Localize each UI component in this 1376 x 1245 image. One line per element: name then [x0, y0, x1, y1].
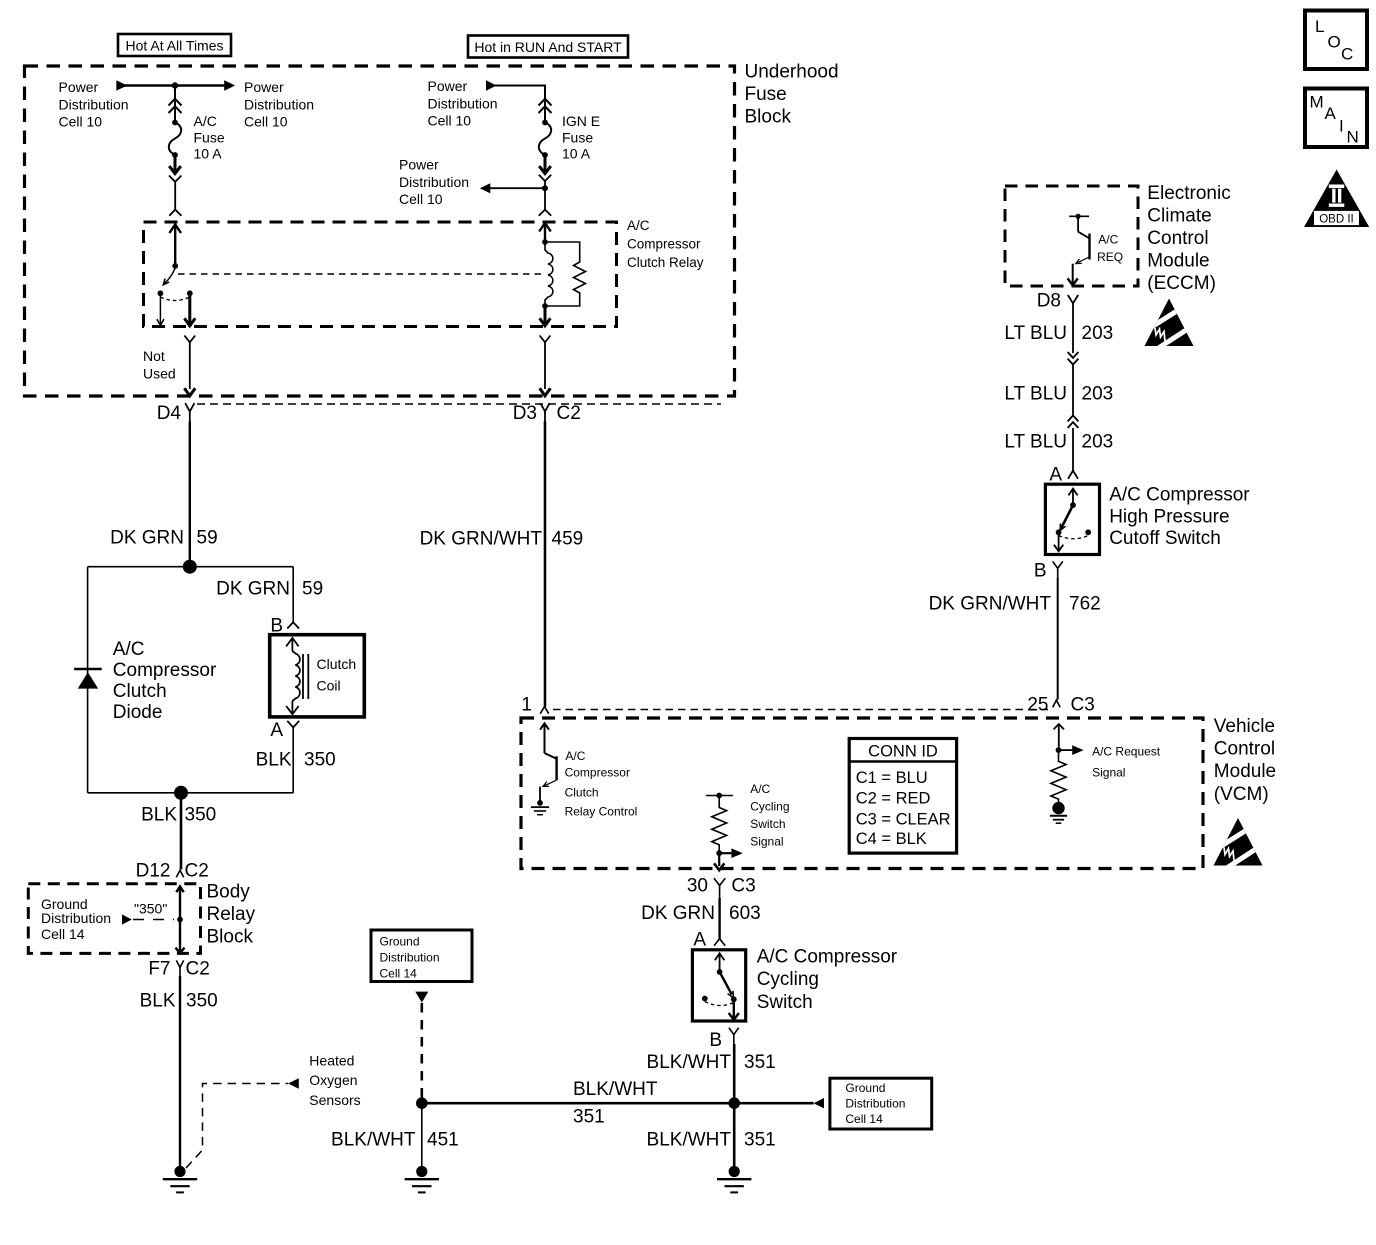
svg-text:Compressor: Compressor — [113, 660, 217, 681]
label: Heated Oxygen Sensors — [309, 1052, 360, 1108]
svg-text:M: M — [1310, 93, 1324, 112]
ground G404 (left) — [163, 1166, 197, 1193]
label: Power Distribution Cell 10 (above IGN fuse) — [428, 78, 498, 129]
svg-text:203: 203 — [1082, 432, 1114, 453]
svg-text:C2: C2 — [557, 403, 581, 424]
wire: cycling switch B to ground — [733, 1044, 736, 1167]
svg-text:B: B — [709, 1030, 722, 1051]
svg-text:LT BLU: LT BLU — [1004, 323, 1067, 344]
svg-text:Cycling: Cycling — [757, 969, 819, 990]
cycling switch symbol — [715, 953, 724, 972]
vehicle control module (dashed box) — [521, 718, 1203, 869]
ground inside VCM driver — [531, 800, 549, 815]
wire + male connector arrow below left fuse — [169, 155, 181, 174]
label: Body Relay Block — [207, 882, 256, 948]
relay coil — [545, 242, 553, 306]
svg-text:Heated: Heated — [309, 1052, 354, 1068]
svg-text:Sensors: Sensors — [309, 1092, 360, 1108]
wire: diode loop — [88, 567, 294, 793]
svg-text:DK GRN/WHT: DK GRN/WHT — [929, 594, 1052, 615]
svg-text:D12: D12 — [136, 861, 171, 882]
svg-text:Control: Control — [1147, 228, 1208, 249]
svg-text:B: B — [1034, 561, 1047, 582]
wire label: LT BLU 203 — [1004, 432, 1113, 453]
CONN ID table — [849, 739, 956, 854]
connector D8 — [1037, 291, 1061, 312]
junction node (bottom of diode loop) — [174, 786, 188, 800]
ground inside VCM (request signal) — [1050, 802, 1067, 823]
svg-text:1: 1 — [521, 695, 532, 716]
wire: left fuse feed down — [174, 86, 176, 123]
ref arrow to ground distribution (right) — [814, 1098, 824, 1108]
in-line connector chevrons (left feed) — [169, 99, 182, 113]
svg-text:Cutoff Switch: Cutoff Switch — [1109, 528, 1221, 549]
junction node on ground rail (left) — [416, 1097, 428, 1109]
svg-text:High Pressure: High Pressure — [1109, 506, 1229, 527]
svg-text:A/C: A/C — [565, 749, 585, 763]
label box: Hot in RUN And START — [468, 36, 628, 58]
svg-text:451: 451 — [427, 1130, 459, 1151]
svg-text:Distribution: Distribution — [41, 910, 111, 926]
svg-text:Cell 10: Cell 10 — [59, 114, 103, 130]
wire label: BLK/WHT 451 — [331, 1130, 459, 1151]
svg-text:D3: D3 — [513, 403, 537, 424]
relay coil output (thick arrow down) — [540, 306, 551, 326]
label: Vehicle Control Module (VCM) — [1214, 716, 1276, 805]
svg-text:603: 603 — [729, 903, 761, 924]
wire label: DK GRN 603 — [641, 903, 761, 924]
svg-text:Cell 14: Cell 14 — [41, 926, 85, 942]
relay switch arm (curved, arrow to left contact) — [163, 268, 175, 285]
in-line connector (double chevron down) — [1068, 352, 1079, 365]
svg-text:C2 = RED: C2 = RED — [856, 790, 931, 808]
wire label: DK GRN/WHT 459 — [420, 529, 584, 550]
svg-text:A/C Compressor: A/C Compressor — [757, 947, 898, 968]
svg-text:Signal: Signal — [750, 835, 783, 849]
svg-text:C3: C3 — [731, 876, 755, 897]
resistor (cycling switch signal) — [712, 796, 727, 851]
wire: to ground (BLK/WHT 451) — [421, 1103, 423, 1166]
svg-text:351: 351 — [744, 1052, 776, 1073]
label: Power Distribution Cell 10 (top left) — [59, 79, 129, 130]
svg-text:Oxygen: Oxygen — [309, 1072, 357, 1088]
relay output female chevron (D3 leg) — [540, 336, 551, 390]
label: Power Distribution Cell 10 (top mid) — [244, 79, 314, 130]
VCM A/C request signal branch — [1054, 724, 1064, 750]
svg-text:C1 = BLU: C1 = BLU — [856, 769, 928, 787]
svg-text:Compressor: Compressor — [565, 765, 630, 779]
A/C compressor clutch relay (dashed box) — [144, 222, 617, 327]
wire label: LT BLU 203 — [1004, 323, 1113, 344]
wire: D3 to VCM pin 1 (DK GRN/WHT 459) — [544, 422, 547, 707]
wire: ground rail BLK/WHT 351 — [422, 1102, 814, 1105]
wire label: DK GRN 59 (coil branch) — [216, 579, 323, 600]
junction on left rail — [172, 82, 178, 88]
wire: 30 to cycling switch A (DK GRN 603) — [718, 898, 720, 939]
svg-text:Body: Body — [207, 882, 251, 903]
relay switch pivot — [172, 263, 178, 269]
ref arrow: heated oxygen sensors — [288, 1078, 299, 1089]
svg-text:59: 59 — [197, 528, 218, 549]
svg-text:351: 351 — [573, 1107, 605, 1128]
ref arrow + "350" — [122, 901, 174, 925]
svg-text:Cell 14: Cell 14 — [845, 1112, 883, 1126]
label: Ground Distribution Cell 14 (inset) — [41, 896, 111, 942]
svg-text:Control: Control — [1214, 739, 1275, 760]
svg-text:Clutch: Clutch — [565, 785, 599, 799]
relay output female chevron (left, D4 leg) — [184, 336, 195, 390]
in-line connector chevrons (IGN feed) — [539, 99, 552, 113]
svg-text:Hot in RUN And START: Hot in RUN And START — [474, 39, 622, 55]
svg-text:A/C: A/C — [750, 782, 770, 796]
svg-text:Distribution: Distribution — [244, 96, 314, 112]
wire: left power rail — [120, 84, 231, 87]
svg-text:IGN E: IGN E — [562, 113, 600, 129]
label: IGN E Fuse 10 A — [562, 113, 600, 162]
ref arrow down from box — [415, 992, 428, 1003]
svg-text:D4: D4 — [157, 403, 182, 424]
ground G103 (middle) — [405, 1166, 439, 1193]
svg-text:Cell 10: Cell 10 — [399, 191, 443, 207]
pin A of cutoff switch — [1049, 465, 1062, 486]
wire label: DK GRN/WHT 762 — [929, 594, 1101, 615]
connector pin 30 / C3 — [687, 876, 756, 897]
svg-text:Electronic: Electronic — [1147, 183, 1230, 204]
svg-text:BLK/WHT: BLK/WHT — [647, 1130, 732, 1151]
svg-text:351: 351 — [744, 1130, 776, 1151]
label: A/C Compressor Clutch Diode — [113, 639, 217, 723]
svg-text:Ground: Ground — [845, 1081, 885, 1095]
svg-text:Hot At All Times: Hot At All Times — [125, 38, 223, 54]
resistor (A/C request signal) — [1051, 750, 1066, 802]
junction in body relay block — [177, 917, 183, 923]
label: A/C Compressor Clutch Relay Control — [565, 749, 638, 819]
off-page arrow (Power Distribution Cell 10, mid) — [480, 183, 491, 193]
A/C compressor high pressure cutoff switch box — [1045, 484, 1099, 554]
junction node on ground rail (right) — [728, 1097, 740, 1109]
off-page arrow (Power Distribution Cell 10, IGN feed) — [486, 80, 497, 90]
svg-text:Distribution: Distribution — [380, 951, 440, 965]
dashed branch to heated oxygen sensors — [186, 1084, 288, 1169]
svg-text:CONN ID: CONN ID — [868, 743, 938, 761]
svg-text:A/C Request: A/C Request — [1092, 745, 1161, 759]
svg-text:30: 30 — [687, 876, 708, 897]
A/C compressor clutch diode — [74, 669, 102, 689]
pin B of clutch coil — [270, 616, 283, 637]
svg-text:A/C: A/C — [627, 218, 650, 233]
svg-text:Switch: Switch — [757, 992, 813, 1013]
relay switch input pin (arrow up into relay) — [169, 224, 181, 266]
arrow at fuse block exit (D4 leg) — [184, 388, 195, 396]
wire: D4 to diode loop (DK GRN 59) — [189, 422, 191, 567]
svg-text:Signal: Signal — [1092, 766, 1125, 780]
svg-text:I: I — [1339, 117, 1344, 136]
label: Clutch Coil — [317, 656, 357, 694]
pin B of cycling switch — [709, 1030, 722, 1051]
svg-text:Power: Power — [428, 78, 468, 94]
connector pin 1 — [521, 695, 532, 716]
svg-text:Not: Not — [143, 348, 165, 364]
svg-text:59: 59 — [302, 579, 323, 600]
svg-text:A: A — [693, 930, 706, 951]
ESD symbol (ECCM) — [1140, 295, 1198, 350]
svg-text:Clutch: Clutch — [113, 681, 167, 702]
svg-text:Distribution: Distribution — [428, 95, 498, 111]
relay contact output (thick arrow down) — [184, 295, 195, 326]
svg-text:LT BLU: LT BLU — [1004, 432, 1067, 453]
wire label: DK GRN 59 — [110, 528, 218, 549]
dashed actuation line from switch to coil — [178, 273, 541, 275]
svg-text:350: 350 — [186, 991, 218, 1012]
wire: loop to D12 (BLK 350) — [180, 793, 183, 870]
dashed arc between relay contacts — [160, 297, 189, 301]
pin B of cutoff switch — [1034, 561, 1047, 582]
dashed wire from ground distribution — [420, 1003, 423, 1098]
svg-text:BLK: BLK — [140, 991, 176, 1012]
svg-text:A: A — [1325, 104, 1337, 123]
label: A/C Request Signal — [1092, 745, 1161, 780]
wire label: BLK 350 — [140, 991, 218, 1012]
svg-text:Cell 10: Cell 10 — [428, 113, 472, 129]
svg-text:Cell 10: Cell 10 — [244, 114, 288, 130]
svg-text:Underhood: Underhood — [745, 62, 839, 83]
wire: LT BLU 203 (lower segment) — [1072, 428, 1074, 471]
svg-text:BLK/WHT: BLK/WHT — [647, 1052, 732, 1073]
svg-text:A/C: A/C — [194, 113, 217, 129]
svg-text:Coil: Coil — [317, 678, 341, 694]
svg-text:Power: Power — [59, 79, 99, 95]
label: A/C Compressor High Pressure Cutoff Switch — [1109, 485, 1250, 549]
electronic climate control module (dashed box) — [1005, 186, 1138, 286]
svg-text:DK GRN/WHT: DK GRN/WHT — [420, 529, 543, 550]
svg-text:Cell 14: Cell 14 — [380, 967, 418, 981]
off-page arrow left (Power Distribution Cell 10) — [116, 80, 127, 90]
svg-text:Module: Module — [1147, 251, 1209, 272]
svg-text:A/C Compressor: A/C Compressor — [1109, 485, 1250, 506]
svg-text:203: 203 — [1082, 384, 1114, 405]
ref box: Ground Distribution Cell 14 (right) — [830, 1078, 932, 1129]
svg-text:A/C: A/C — [113, 639, 145, 660]
A/C compressor cycling switch box — [692, 950, 745, 1021]
in-line connector (double chevron up) — [1068, 416, 1079, 429]
svg-text:Clutch Relay: Clutch Relay — [627, 255, 704, 270]
svg-text:DK GRN: DK GRN — [216, 579, 290, 600]
label: A/C Compressor Cycling Switch — [757, 947, 898, 1013]
svg-text:O: O — [1328, 33, 1341, 52]
svg-text:Power: Power — [399, 157, 439, 173]
ECCM A/C REQ driver output — [1069, 215, 1089, 217]
svg-text:L: L — [1315, 17, 1324, 36]
wire label: BLK/WHT 351 (rail) — [573, 1079, 658, 1128]
svg-text:Relay Control: Relay Control — [565, 805, 638, 819]
svg-text:(VCM): (VCM) — [1214, 784, 1269, 805]
svg-text:Cycling: Cycling — [750, 800, 789, 814]
fuse A/C Fuse 10 A — [169, 120, 181, 158]
svg-text:A: A — [270, 720, 283, 741]
wire: IGN E feed rail — [495, 86, 545, 123]
fuse IGN E Fuse 10 A — [539, 120, 551, 158]
VCM A/C compressor clutch relay control driver — [540, 723, 557, 780]
relay coil top node — [542, 239, 548, 245]
connector D4 — [157, 403, 182, 424]
label: Electronic Climate Control Module (ECCM) — [1147, 183, 1230, 294]
pin A of cycling switch — [693, 930, 706, 951]
female connector chevron (IGN) — [539, 175, 551, 181]
svg-text:762: 762 — [1069, 594, 1101, 615]
svg-text:BLK: BLK — [141, 805, 177, 826]
relay switch contacts — [158, 290, 164, 296]
svg-text:Distribution: Distribution — [59, 96, 129, 112]
relay contact Not Used (thin arrow down) — [157, 296, 164, 326]
connector C3 line (thin dashed) — [553, 709, 1050, 711]
svg-text:Block: Block — [745, 107, 792, 128]
svg-text:25: 25 — [1027, 695, 1048, 716]
svg-text:C4 = BLK: C4 = BLK — [856, 830, 927, 848]
ground G104 (right) — [717, 1166, 751, 1193]
wire label: BLK 350 (below coil) — [256, 750, 336, 771]
wire: F7 to ground (BLK 350) — [179, 976, 181, 1167]
svg-text:Diode: Diode — [113, 702, 163, 723]
svg-text:C2: C2 — [186, 959, 210, 980]
arrow at fuse block exit (D3 leg) — [540, 388, 551, 396]
label: A/C Cycling Switch Signal — [750, 782, 789, 849]
svg-text:C: C — [1341, 45, 1353, 64]
connector D3 / C2 — [513, 403, 581, 424]
wire label: BLK 350 — [141, 805, 216, 826]
junction dot on IGN wire — [542, 185, 548, 191]
svg-text:A/C: A/C — [1098, 232, 1118, 246]
wire: D8 to in-line connector (LT BLU 203) — [1072, 312, 1074, 353]
clutch coil symbol — [286, 638, 308, 714]
wire: LT BLU 203 (middle segment) — [1072, 365, 1074, 416]
LOC icon — [1305, 11, 1367, 70]
svg-text:BLK/WHT: BLK/WHT — [331, 1130, 416, 1151]
ref box: Ground Distribution Cell 14 (middle) — [371, 930, 472, 982]
svg-text:Distribution: Distribution — [399, 174, 469, 190]
chevron into relay box (IGN wire) — [539, 210, 551, 216]
svg-text:D8: D8 — [1037, 291, 1061, 312]
connector pin 25 / C3 — [1027, 695, 1094, 716]
label box: Hot At All Times — [118, 34, 231, 56]
female connector chevron (left) — [169, 176, 181, 216]
svg-text:DK GRN: DK GRN — [110, 528, 184, 549]
VCM cycling switch signal pull-up — [706, 795, 733, 797]
label: Power Distribution Cell 10 (mid) — [399, 157, 469, 208]
svg-text:459: 459 — [552, 529, 584, 550]
label: A/C Fuse 10 A — [194, 113, 225, 162]
svg-text:Switch: Switch — [750, 817, 785, 831]
relay coil input pin (arrow up) — [539, 223, 551, 242]
ESD symbol (VCM) — [1209, 814, 1267, 869]
junction node (top of diode loop) — [183, 560, 197, 574]
node + signal arrow — [716, 850, 722, 856]
svg-text:"350": "350" — [134, 901, 167, 917]
svg-text:BLK/WHT: BLK/WHT — [573, 1079, 658, 1100]
svg-text:Vehicle: Vehicle — [1214, 716, 1275, 737]
connector F7 / C2 — [148, 959, 209, 980]
off-page arrow right (Power Distribution Cell 10) — [224, 80, 235, 90]
svg-text:Power: Power — [244, 79, 284, 95]
wire label: LT BLU 203 — [1004, 384, 1113, 405]
svg-text:Climate: Climate — [1147, 206, 1211, 227]
label: Not Used — [143, 348, 176, 381]
OBD II icon — [1304, 170, 1369, 228]
svg-text:Relay: Relay — [207, 904, 256, 925]
MAIN icon — [1305, 89, 1367, 148]
svg-text:203: 203 — [1082, 323, 1114, 344]
svg-text:N: N — [1347, 128, 1359, 147]
svg-text:Block: Block — [207, 927, 254, 948]
svg-text:Fuse: Fuse — [562, 129, 593, 145]
svg-text:10 A: 10 A — [194, 146, 223, 162]
connector C2 line (thin dashed) — [197, 403, 721, 405]
svg-text:350: 350 — [185, 805, 217, 826]
svg-text:Clutch: Clutch — [317, 656, 357, 672]
body relay internal wire (arrows both ends) — [176, 886, 185, 953]
label: A/C REQ — [1097, 232, 1123, 263]
wire label: BLK/WHT 351 (lower) — [647, 1130, 776, 1151]
wire + male connector arrow below IGN fuse — [539, 155, 551, 174]
svg-text:OBD II: OBD II — [1319, 213, 1354, 225]
svg-text:LT BLU: LT BLU — [1004, 384, 1067, 405]
relay coil bottom node — [542, 303, 548, 309]
svg-text:Compressor: Compressor — [627, 237, 701, 252]
label: Underhood Fuse Block — [745, 62, 839, 128]
svg-text:Fuse: Fuse — [194, 129, 225, 145]
clutch coil box — [270, 635, 365, 717]
arrow at VCM exit (cycling signal) — [714, 863, 724, 870]
svg-text:BLK: BLK — [256, 750, 292, 771]
svg-text:C3: C3 — [1071, 695, 1095, 716]
svg-text:Used: Used — [143, 365, 176, 381]
wire: B to VCM pin 25 (DK GRN/WHT 762) — [1057, 578, 1059, 700]
pin A of clutch coil — [270, 720, 283, 741]
svg-text:Ground: Ground — [380, 935, 420, 949]
underhood fuse block (dashed box) — [25, 66, 735, 396]
svg-text:DK GRN: DK GRN — [641, 903, 715, 924]
svg-text:F7: F7 — [148, 959, 170, 980]
wire: branch to Power Distribution (left arrow) — [490, 181, 545, 210]
body relay block (dashed box) — [28, 884, 200, 954]
svg-text:C3 = CLEAR: C3 = CLEAR — [856, 810, 951, 828]
svg-text:Module: Module — [1214, 761, 1276, 782]
svg-text:(ECCM): (ECCM) — [1147, 273, 1216, 294]
svg-text:A: A — [1049, 465, 1062, 486]
svg-text:C2: C2 — [185, 861, 209, 882]
svg-text:Fuse: Fuse — [745, 84, 787, 105]
svg-text:10 A: 10 A — [562, 146, 591, 162]
svg-text:REQ: REQ — [1097, 250, 1123, 264]
label: A/C Compressor Clutch Relay — [627, 218, 704, 270]
svg-text:Distribution: Distribution — [845, 1097, 905, 1111]
svg-text:350: 350 — [304, 750, 336, 771]
relay resistor (parallel) — [545, 242, 586, 306]
connector D12 / C2 — [136, 861, 209, 882]
cutoff switch symbol — [1068, 489, 1077, 506]
wire label: BLK/WHT 351 (upper) — [647, 1052, 776, 1073]
